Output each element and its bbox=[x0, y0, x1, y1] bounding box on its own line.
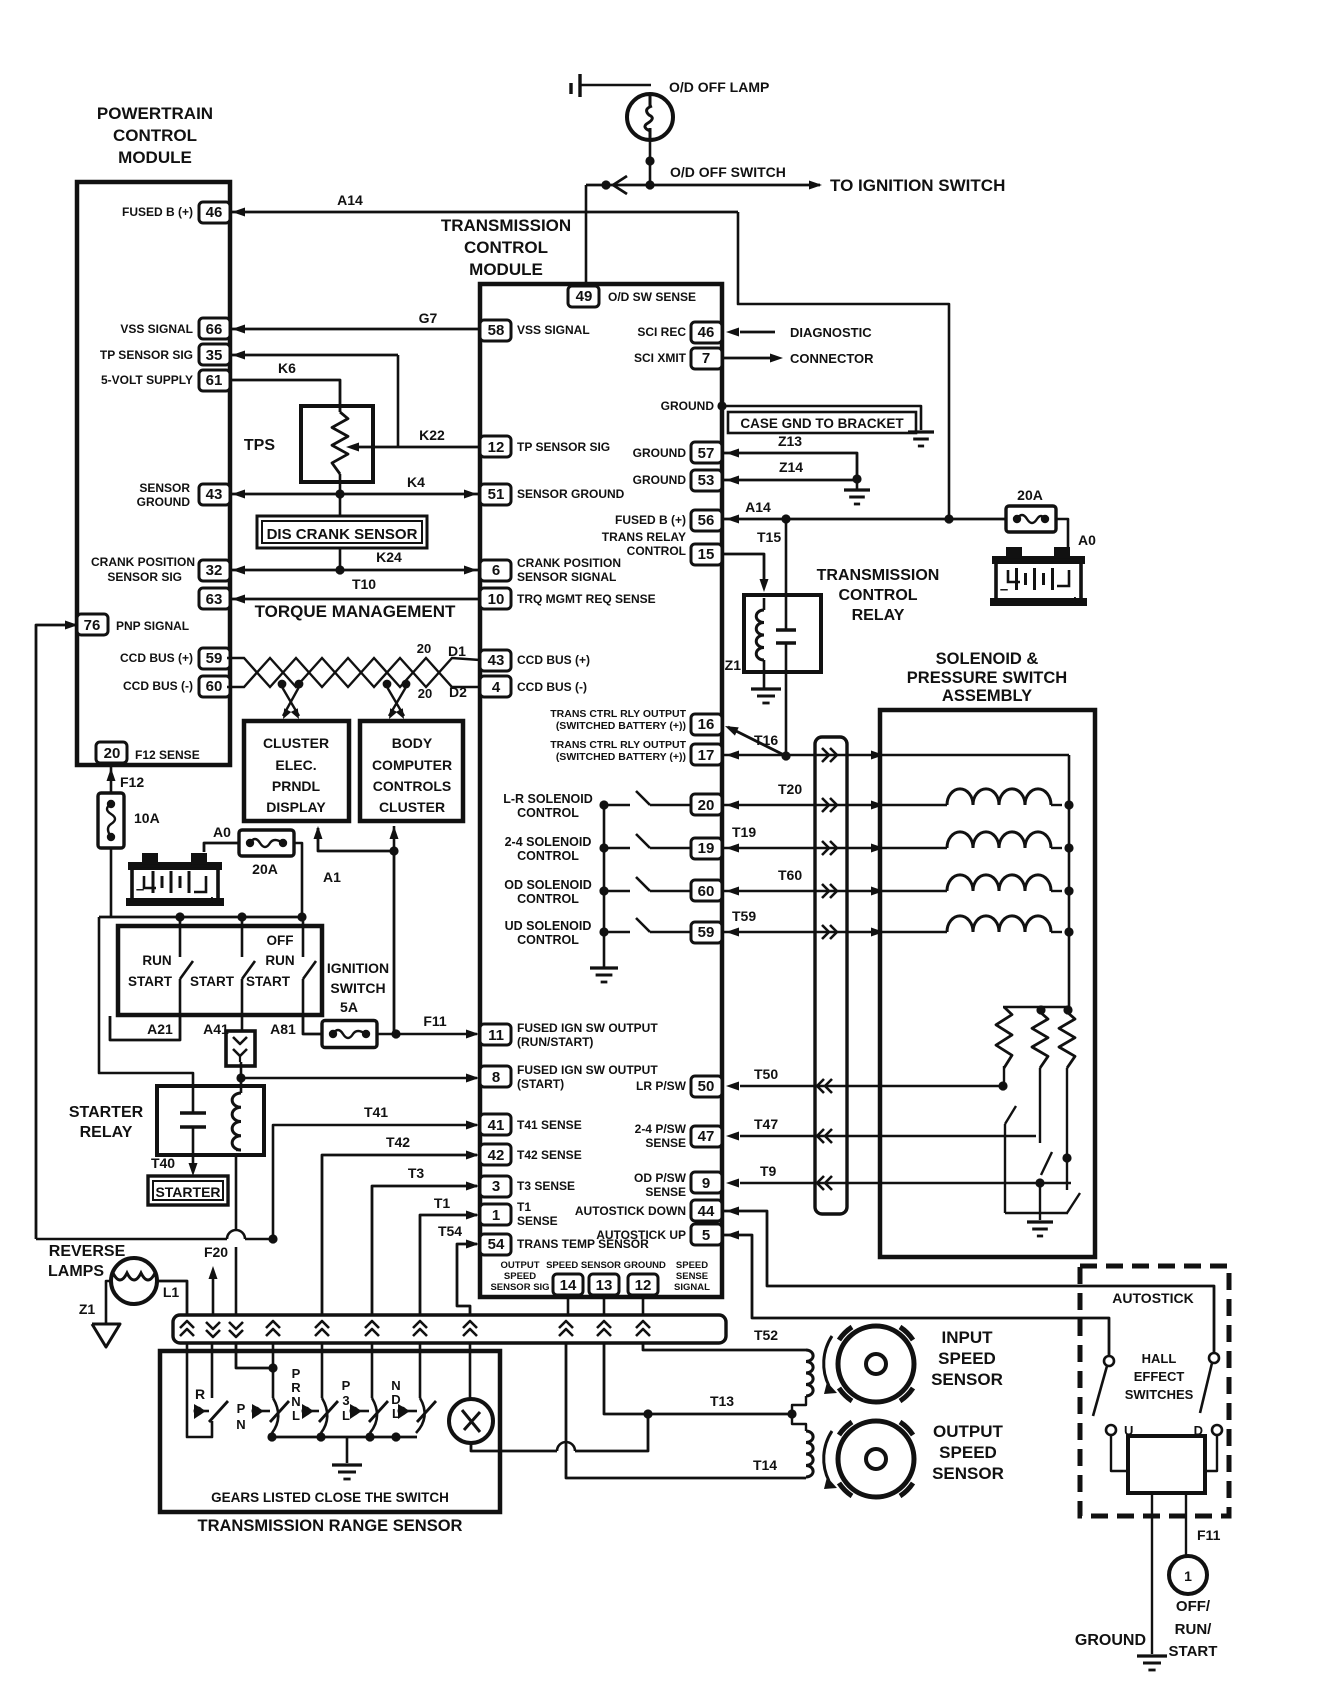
svg-text:T60: T60 bbox=[778, 867, 802, 883]
wire autostick down pin 44 bbox=[722, 1211, 1214, 1353]
TCM pin 20 bbox=[691, 794, 722, 815]
node to relay contacts bbox=[781, 514, 790, 523]
ignition switch contact bbox=[302, 917, 305, 957]
svg-text:RUN/: RUN/ bbox=[1175, 1621, 1212, 1638]
connector chevron T16 row bbox=[822, 748, 829, 762]
svg-text:63: 63 bbox=[206, 591, 223, 608]
svg-text:CLUSTER: CLUSTER bbox=[379, 799, 445, 815]
svg-text:N: N bbox=[236, 1417, 245, 1432]
svg-text:T41 SENSE: T41 SENSE bbox=[517, 1118, 582, 1132]
TCM box TRANSMISSION CONTROL MODULE bbox=[480, 284, 722, 1297]
svg-text:T1: T1 bbox=[434, 1195, 451, 1211]
wire to psw ground bbox=[1039, 1183, 1041, 1220]
O/D OFF SWITCH wire bbox=[586, 184, 820, 187]
svg-text:T16: T16 bbox=[754, 732, 778, 748]
wire PNP signal from TRS bbox=[36, 625, 75, 1239]
svg-text:COMPUTER: COMPUTER bbox=[372, 757, 452, 773]
svg-text:49: 49 bbox=[576, 288, 593, 305]
svg-text:12: 12 bbox=[488, 439, 505, 456]
wire T20 solenoid row bbox=[722, 804, 880, 807]
svg-text:A1: A1 bbox=[323, 869, 341, 885]
wire T16 pin16 diagonal bbox=[728, 727, 786, 756]
OD switch arm bbox=[1067, 1193, 1080, 1213]
svg-text:CCD BUS (+): CCD BUS (+) bbox=[120, 651, 193, 665]
svg-text:L-R SOLENOID: L-R SOLENOID bbox=[503, 792, 593, 806]
svg-text:N: N bbox=[291, 1394, 300, 1409]
svg-text:SPEED: SPEED bbox=[504, 1271, 536, 1282]
svg-text:3: 3 bbox=[342, 1393, 349, 1408]
svg-text:SPEED: SPEED bbox=[939, 1443, 997, 1462]
bar chevron bbox=[180, 1321, 194, 1328]
node T41 riser bbox=[268, 1234, 277, 1243]
svg-text:57: 57 bbox=[698, 445, 715, 462]
node CCD tap bbox=[383, 680, 392, 689]
svg-text:SENSE: SENSE bbox=[645, 1136, 686, 1150]
svg-text:59: 59 bbox=[698, 924, 715, 941]
wire relay coil to Z1 ground bbox=[763, 660, 766, 688]
ground Z1 relay bbox=[751, 687, 781, 690]
TRS switch common bus bbox=[272, 1436, 417, 1439]
TCM bottom pin 13 bbox=[589, 1274, 619, 1295]
svg-text:44: 44 bbox=[698, 1203, 715, 1220]
svg-text:F12 SENSE: F12 SENSE bbox=[135, 748, 200, 762]
svg-text:10: 10 bbox=[488, 591, 505, 608]
svg-text:+: + bbox=[207, 892, 217, 911]
svg-text:5-VOLT SUPPLY: 5-VOLT SUPPLY bbox=[101, 373, 193, 387]
wire A41 to Y connector bbox=[241, 1015, 244, 1031]
fuse 10A bbox=[98, 793, 124, 848]
svg-text:K4: K4 bbox=[407, 474, 425, 490]
arrow into body box bbox=[390, 826, 399, 839]
arrow into relay bbox=[760, 579, 769, 592]
ignition feed bus bbox=[99, 916, 302, 919]
svg-text:T50: T50 bbox=[754, 1066, 778, 1082]
svg-text:41: 41 bbox=[488, 1117, 505, 1134]
svg-text:OFF: OFF bbox=[267, 933, 294, 948]
TCM pin 3 bbox=[480, 1176, 511, 1197]
svg-text:60: 60 bbox=[698, 883, 715, 900]
BODY COMPUTER CONTROLS CLUSTER box bbox=[360, 721, 463, 821]
node T50/LR bbox=[998, 1081, 1007, 1090]
svg-text:54: 54 bbox=[488, 1236, 505, 1253]
node coil T20 common bbox=[1064, 800, 1073, 809]
TCM pin 10 bbox=[480, 588, 511, 609]
svg-text:F11: F11 bbox=[1197, 1527, 1221, 1543]
wire A1 bbox=[294, 843, 302, 917]
wire LR to OD common bbox=[1005, 1212, 1068, 1214]
svg-text:SPEED SENSOR GROUND: SPEED SENSOR GROUND bbox=[546, 1260, 666, 1271]
resistor OD P/SW bbox=[1059, 1012, 1075, 1068]
svg-text:43: 43 bbox=[206, 486, 223, 503]
svg-text:VSS SIGNAL: VSS SIGNAL bbox=[120, 322, 193, 336]
resistor 2-4 P/SW bbox=[1032, 1012, 1048, 1068]
svg-text:TRANS CTRL RLY OUTPUT: TRANS CTRL RLY OUTPUT bbox=[550, 708, 686, 720]
TRS switch PRNL bbox=[302, 1404, 314, 1419]
PCM pin 76 PNP SIGNAL bbox=[77, 614, 108, 635]
svg-text:(RUN/START): (RUN/START) bbox=[517, 1035, 593, 1049]
rotor output speed sensor bbox=[838, 1421, 914, 1497]
svg-text:P: P bbox=[237, 1401, 246, 1416]
svg-text:SCI REC: SCI REC bbox=[637, 325, 686, 339]
svg-text:5: 5 bbox=[702, 1227, 710, 1244]
wire bus to starter relay cap bbox=[99, 917, 193, 1086]
wire Y connector to pin 8 bbox=[240, 1062, 243, 1078]
svg-text:N: N bbox=[391, 1378, 400, 1393]
svg-text:TRANSMISSION RANGE SENSOR: TRANSMISSION RANGE SENSOR bbox=[198, 1517, 463, 1535]
TCM pin 8 bbox=[480, 1066, 511, 1087]
wire fuse to battery bbox=[1056, 519, 1068, 548]
2-4 switch arm bbox=[1041, 1152, 1052, 1175]
svg-text:7: 7 bbox=[702, 350, 710, 367]
node cluster feed bbox=[389, 846, 398, 855]
wire TRS to ground bbox=[346, 1437, 349, 1463]
svg-text:47: 47 bbox=[698, 1128, 715, 1145]
svg-text:1: 1 bbox=[1184, 1568, 1192, 1584]
wire fuse to ignition bus bbox=[110, 848, 113, 917]
svg-text:DISPLAY: DISPLAY bbox=[266, 799, 326, 815]
svg-text:20: 20 bbox=[698, 797, 715, 814]
solenoid coil T20 bbox=[947, 789, 1051, 805]
wire lamp to Z1 ground bbox=[106, 1281, 111, 1324]
TCM pin 60 bbox=[691, 880, 722, 901]
svg-text:SENSOR SIG: SENSOR SIG bbox=[107, 570, 182, 584]
ignition switch contact bbox=[179, 917, 182, 957]
svg-text:INPUT: INPUT bbox=[942, 1328, 994, 1347]
svg-text:TORQUE MANAGEMENT: TORQUE MANAGEMENT bbox=[255, 602, 456, 621]
svg-text:LR P/SW: LR P/SW bbox=[636, 1079, 687, 1093]
svg-text:60: 60 bbox=[206, 678, 223, 695]
bar chevron bbox=[636, 1321, 650, 1328]
solenoid coil T19 bbox=[947, 832, 1051, 848]
svg-text:CONTROL: CONTROL bbox=[517, 933, 579, 947]
svg-text:SENSOR GROUND: SENSOR GROUND bbox=[517, 487, 625, 501]
node T16/T17 junction bbox=[781, 751, 790, 760]
LR switch arm bbox=[1005, 1106, 1016, 1124]
TCM pin 1 bbox=[480, 1204, 511, 1225]
wire A0 battery to 20A fuse bbox=[204, 843, 239, 852]
svg-text:START: START bbox=[190, 974, 235, 989]
svg-text:F11: F11 bbox=[423, 1013, 447, 1029]
svg-text:16: 16 bbox=[698, 716, 715, 733]
wire A14 from TCM area to PCM pin 46 bbox=[230, 211, 738, 214]
TCM pin 12 bbox=[480, 436, 511, 457]
svg-text:19: 19 bbox=[698, 840, 715, 857]
bar chevron bbox=[597, 1321, 611, 1328]
svg-text:RELAY: RELAY bbox=[80, 1124, 133, 1141]
svg-text:20A: 20A bbox=[252, 861, 278, 877]
TCM pin 15 bbox=[691, 544, 722, 565]
TCM pin 7 bbox=[691, 348, 722, 369]
svg-text:A81: A81 bbox=[270, 1021, 296, 1037]
svg-text:EFFECT: EFFECT bbox=[1134, 1369, 1185, 1384]
wire R1 bottom to T50 node bbox=[1003, 1066, 1005, 1086]
starter relay contact plates bbox=[180, 1111, 206, 1114]
svg-text:CRANK POSITION: CRANK POSITION bbox=[91, 555, 195, 569]
inductor input speed sensor bbox=[806, 1350, 813, 1396]
wire T13 to coil2 bbox=[792, 1414, 806, 1431]
wire T59 solenoid row bbox=[722, 931, 880, 934]
svg-text:T13: T13 bbox=[710, 1393, 734, 1409]
TCM pin 44 bbox=[691, 1200, 722, 1221]
PCM box POWERTRAIN CONTROL MODULE bbox=[77, 182, 230, 765]
PCM pin 60 bbox=[199, 676, 230, 697]
svg-text:46: 46 bbox=[698, 324, 715, 341]
svg-text:46: 46 bbox=[206, 204, 223, 221]
svg-text:TRANS CTRL RLY OUTPUT: TRANS CTRL RLY OUTPUT bbox=[550, 739, 686, 751]
ground triangle Z1 bbox=[92, 1324, 120, 1347]
TRS wires from bar bbox=[186, 1343, 189, 1424]
wire A21 bbox=[110, 1015, 180, 1040]
CCD drops to cluster bbox=[282, 687, 299, 716]
node K24 junction bbox=[335, 565, 344, 574]
wire T42 bbox=[322, 1155, 477, 1315]
wire coil to T13 bbox=[792, 1396, 806, 1414]
svg-text:CONTROL: CONTROL bbox=[627, 544, 686, 558]
svg-text:15: 15 bbox=[698, 546, 715, 563]
svg-text:A14: A14 bbox=[337, 192, 363, 208]
svg-text:VSS SIGNAL: VSS SIGNAL bbox=[517, 323, 590, 337]
svg-text:SCI XMIT: SCI XMIT bbox=[634, 351, 687, 365]
svg-text:51: 51 bbox=[488, 486, 505, 503]
wire T40 to starter bbox=[192, 1155, 195, 1172]
svg-text:CONNECTOR: CONNECTOR bbox=[790, 351, 874, 366]
svg-text:K6: K6 bbox=[278, 360, 296, 376]
svg-text:D1: D1 bbox=[448, 643, 466, 659]
TCM pin 53 bbox=[691, 470, 722, 491]
fuse 20A (left) bbox=[239, 830, 294, 856]
node switch right bbox=[645, 180, 654, 189]
svg-text:A14: A14 bbox=[745, 499, 771, 515]
svg-text:P: P bbox=[342, 1378, 351, 1393]
node switch left bbox=[601, 180, 610, 189]
svg-text:HALL: HALL bbox=[1142, 1351, 1177, 1366]
svg-text:IGNITION: IGNITION bbox=[327, 960, 389, 976]
svg-text:GROUND: GROUND bbox=[1075, 1632, 1146, 1649]
svg-text:R: R bbox=[195, 1386, 205, 1402]
wire T50 LR P/SW bbox=[740, 1085, 1003, 1087]
arrow up into pin 20 bbox=[107, 768, 116, 781]
wire hop bbox=[227, 1230, 245, 1239]
wire pin 12 to bar bbox=[642, 1295, 645, 1315]
svg-text:OD SOLENOID: OD SOLENOID bbox=[504, 878, 592, 892]
CCD bus twisted pair bbox=[227, 658, 480, 687]
TCM pin 17 bbox=[691, 744, 722, 765]
svg-text:T10: T10 bbox=[352, 576, 376, 592]
wire R2 bottom bbox=[1039, 1068, 1041, 1143]
svg-text:T47: T47 bbox=[754, 1116, 778, 1132]
svg-text:D2: D2 bbox=[449, 684, 467, 700]
svg-text:Z1: Z1 bbox=[725, 657, 742, 673]
node PRNL/starter bbox=[268, 1363, 277, 1372]
svg-text:STARTER: STARTER bbox=[155, 1184, 220, 1200]
svg-text:REVERSE: REVERSE bbox=[49, 1243, 126, 1260]
svg-text:POWERTRAIN: POWERTRAIN bbox=[97, 104, 213, 123]
TCM pin 57 bbox=[691, 442, 722, 463]
svg-text:6: 6 bbox=[492, 562, 500, 579]
reverse lamp bbox=[111, 1258, 157, 1304]
svg-text:SENSOR SIGNAL: SENSOR SIGNAL bbox=[517, 570, 616, 584]
wire A14 riser to fused B+ bbox=[738, 212, 949, 519]
connector circle 1 bbox=[1169, 1556, 1207, 1594]
svg-text:AUTOSTICK UP: AUTOSTICK UP bbox=[596, 1228, 686, 1242]
svg-text:20A: 20A bbox=[1017, 487, 1043, 503]
svg-text:20: 20 bbox=[418, 686, 432, 701]
wire D to IC bbox=[1205, 1435, 1217, 1471]
svg-text:F12: F12 bbox=[120, 774, 144, 790]
hall contacts U and D bbox=[1106, 1425, 1116, 1435]
svg-text:K22: K22 bbox=[419, 427, 445, 443]
svg-text:T9: T9 bbox=[760, 1163, 777, 1179]
svg-text:SENSE: SENSE bbox=[676, 1271, 708, 1282]
node coil T59 common bbox=[1064, 927, 1073, 936]
svg-text:T3 SENSE: T3 SENSE bbox=[517, 1179, 575, 1193]
node CCD tap bbox=[402, 680, 411, 689]
PCM pin 43 bbox=[199, 484, 230, 505]
wire temp sensor return bbox=[471, 1443, 557, 1451]
svg-text:66: 66 bbox=[206, 321, 223, 338]
svg-text:FUSED IGN SW OUTPUT: FUSED IGN SW OUTPUT bbox=[517, 1021, 658, 1035]
PCM pin 63 bbox=[199, 588, 230, 609]
PNP bus to T41 riser bbox=[36, 1238, 227, 1241]
hall IC box bbox=[1128, 1436, 1205, 1493]
svg-text:GROUND: GROUND bbox=[661, 399, 715, 413]
svg-text:TRANS RELAY: TRANS RELAY bbox=[602, 530, 686, 544]
wire K24 crank position bbox=[229, 569, 480, 572]
TCM pin 51 bbox=[480, 484, 511, 505]
TCM pin 11 bbox=[480, 1024, 511, 1045]
AUTOSTICK dashed box bbox=[1080, 1266, 1229, 1516]
node ignition bus bbox=[175, 912, 184, 921]
TCM pin 49 O/D SW SENSE bbox=[568, 286, 599, 307]
STARTER RELAY box bbox=[157, 1086, 264, 1155]
svg-text:T3: T3 bbox=[408, 1165, 425, 1181]
svg-text:8: 8 bbox=[492, 1069, 500, 1086]
svg-text:T40: T40 bbox=[151, 1155, 175, 1171]
svg-text:(SWITCHED BATTERY (+)): (SWITCHED BATTERY (+)) bbox=[556, 751, 686, 763]
svg-text:TP SENSOR SIG: TP SENSOR SIG bbox=[517, 440, 610, 454]
wire T1 bbox=[420, 1215, 477, 1315]
svg-text:A0: A0 bbox=[1078, 532, 1096, 548]
svg-text:17: 17 bbox=[698, 747, 715, 764]
svg-text:GEARS LISTED CLOSE THE SWITCH: GEARS LISTED CLOSE THE SWITCH bbox=[211, 1490, 449, 1505]
resistor TPS bbox=[332, 412, 348, 474]
svg-text:12: 12 bbox=[635, 1277, 652, 1294]
fuse 20A (right) bbox=[1006, 506, 1056, 532]
battery (left) bbox=[142, 853, 158, 863]
arrow into cluster box bbox=[314, 826, 323, 839]
svg-text:PNP SIGNAL: PNP SIGNAL bbox=[116, 619, 189, 633]
bar chevron bbox=[266, 1321, 280, 1328]
svg-text:AUTOSTICK DOWN: AUTOSTICK DOWN bbox=[575, 1204, 686, 1218]
svg-text:MODULE: MODULE bbox=[118, 148, 192, 167]
svg-text:SENSE: SENSE bbox=[645, 1185, 686, 1199]
svg-text:35: 35 bbox=[206, 347, 223, 364]
wire T41 bbox=[273, 1125, 477, 1239]
svg-text:START: START bbox=[128, 974, 173, 989]
TCM pin 41 bbox=[480, 1114, 511, 1135]
TCM pin 46 bbox=[691, 322, 722, 343]
inductor output speed sensor bbox=[806, 1431, 813, 1477]
svg-text:TPS: TPS bbox=[244, 437, 275, 454]
svg-text:RUN: RUN bbox=[142, 953, 171, 968]
svg-text:3: 3 bbox=[492, 1178, 500, 1195]
bar chevron bbox=[315, 1321, 329, 1328]
svg-text:T19: T19 bbox=[732, 824, 756, 840]
svg-text:STARTER: STARTER bbox=[69, 1104, 144, 1121]
svg-text:5A: 5A bbox=[340, 999, 358, 1015]
CASE GND TO BRACKET box bbox=[728, 412, 916, 433]
wire IC to ground bbox=[1151, 1493, 1153, 1654]
battery (right) bbox=[1006, 547, 1022, 557]
wire lamp to switch line bbox=[649, 140, 652, 161]
svg-text:TRQ MGMT REQ SENSE: TRQ MGMT REQ SENSE bbox=[517, 592, 656, 606]
svg-text:O/D SW SENSE: O/D SW SENSE bbox=[608, 290, 696, 304]
arrow into solenoid box T16 bbox=[871, 751, 884, 760]
svg-text:SENSOR: SENSOR bbox=[931, 1370, 1003, 1389]
node T9 ground tap bbox=[1035, 1178, 1044, 1187]
svg-text:GROUND: GROUND bbox=[633, 446, 687, 460]
svg-text:UD SOLENOID: UD SOLENOID bbox=[505, 919, 592, 933]
wire T14 bbox=[566, 1343, 806, 1478]
TCM pin 47 bbox=[691, 1126, 722, 1147]
svg-text:32: 32 bbox=[206, 562, 223, 579]
svg-text:CCD BUS (+): CCD BUS (+) bbox=[517, 653, 590, 667]
ground autostick bbox=[1137, 1654, 1167, 1657]
node F11/body computer bbox=[391, 1029, 400, 1038]
CLUSTER ELEC PRNDL DISPLAY box bbox=[244, 721, 349, 821]
svg-text:SENSE: SENSE bbox=[517, 1214, 558, 1228]
wire autostick up pin 5 bbox=[722, 1235, 1109, 1356]
relay coil bbox=[756, 610, 764, 660]
node lamp/switch junction bbox=[645, 156, 654, 165]
svg-text:OUTPUT: OUTPUT bbox=[500, 1260, 539, 1271]
node R3/T9 bbox=[1062, 1153, 1071, 1162]
wire driver common to ground bbox=[603, 805, 606, 967]
wire R return bbox=[187, 1421, 212, 1437]
svg-text:GROUND: GROUND bbox=[633, 473, 687, 487]
svg-text:T20: T20 bbox=[778, 781, 802, 797]
wire O/D sw sense down to pin 49 bbox=[585, 185, 588, 285]
pressure switch resistor bus bbox=[1003, 1006, 1069, 1008]
svg-text:OD P/SW: OD P/SW bbox=[634, 1171, 687, 1185]
svg-text:SWITCHES: SWITCHES bbox=[1125, 1387, 1194, 1402]
svg-text:TP SENSOR SIG: TP SENSOR SIG bbox=[100, 348, 193, 362]
TRANSMISSION RANGE SENSOR box bbox=[160, 1351, 500, 1512]
PCM pin 66 bbox=[199, 318, 230, 339]
svg-text:13: 13 bbox=[596, 1277, 613, 1294]
wire cluster/body feed bbox=[318, 828, 394, 1034]
svg-text:GROUND: GROUND bbox=[137, 495, 191, 509]
wire diagnostic to pin 46 bbox=[740, 331, 775, 334]
svg-text:76: 76 bbox=[84, 617, 101, 634]
svg-text:42: 42 bbox=[488, 1147, 505, 1164]
node coil T19 common bbox=[1064, 843, 1073, 852]
svg-text:T1: T1 bbox=[517, 1200, 531, 1214]
ground pressure switches bbox=[1027, 1220, 1053, 1223]
wire L1 lamp to bar bbox=[157, 1281, 187, 1315]
svg-text:G7: G7 bbox=[419, 310, 438, 326]
svg-text:20: 20 bbox=[417, 641, 431, 656]
node CCD tap bbox=[278, 680, 287, 689]
node ignition bus bbox=[237, 912, 246, 921]
svg-text:T15: T15 bbox=[757, 529, 781, 545]
wire F20 bbox=[212, 1279, 215, 1315]
svg-text:PRNDL: PRNDL bbox=[272, 778, 321, 794]
svg-text:CRANK POSITION: CRANK POSITION bbox=[517, 556, 621, 570]
svg-text:L1: L1 bbox=[163, 1284, 180, 1300]
svg-text:T42 SENSE: T42 SENSE bbox=[517, 1148, 582, 1162]
TRS switch P3L bbox=[350, 1404, 362, 1419]
